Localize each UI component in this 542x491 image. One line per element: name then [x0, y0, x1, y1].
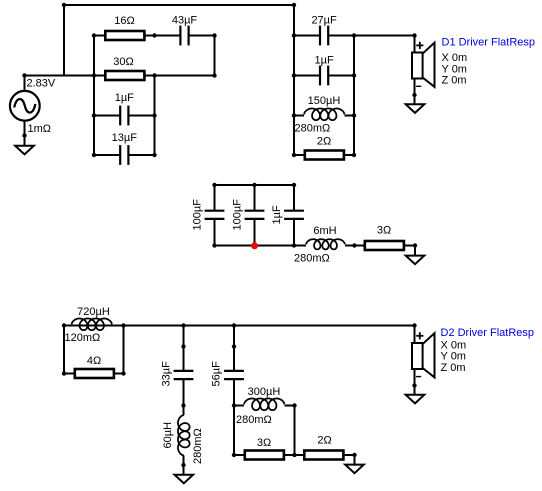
wire mid cap1 v [214, 185, 216, 211]
svg-text:100µF: 100µF [192, 199, 204, 231]
node top bus corner [62, 3, 66, 7]
svg-text:Y 0m: Y 0m [441, 351, 466, 363]
wire 27uF left [294, 35, 320, 37]
wire 300uH drop [294, 406, 296, 456]
capacitor C 100uF a [205, 210, 225, 212]
wire 2ohm bot rh [344, 454, 355, 456]
wire top bus vertical [63, 4, 65, 76]
wire top bus horizontal [63, 4, 295, 6]
speaker D1 [412, 43, 435, 87]
svg-text:1µF: 1µF [315, 55, 334, 67]
wire 2ohm bot lh [295, 454, 304, 456]
wire 2ohm gnd lead [354, 455, 356, 466]
capacitor C 1uF left block [119, 106, 121, 126]
node bot bus c [181, 323, 185, 327]
svg-text:D1 Driver FlatResp: D1 Driver FlatResp [442, 36, 536, 48]
wire 3ohm mid right [405, 245, 416, 247]
inductor L 60uH [178, 415, 190, 456]
wire D2 minus lead [414, 369, 416, 395]
svg-text:X 0m: X 0m [441, 339, 467, 351]
wire 1uF right [129, 115, 155, 117]
svg-text:27µF: 27µF [311, 15, 337, 27]
node mid top b [252, 183, 256, 187]
wire 4ohm right h [115, 373, 124, 375]
svg-text:720µH: 720µH [77, 306, 110, 318]
wire D2 plus lead [414, 326, 416, 344]
svg-text:100µF: 100µF [232, 199, 244, 231]
wire 56uF top v [233, 326, 235, 371]
wire D1 plus lead [414, 36, 416, 53]
capacitor C 100uF b [245, 210, 265, 212]
svg-text:16Ω: 16Ω [114, 15, 134, 27]
wire D1 minus lead [414, 79, 416, 105]
wire 4ohm left h [64, 373, 74, 375]
wire bottom bus [64, 325, 415, 327]
node 33uF top [181, 344, 185, 348]
wire mid top bus [215, 184, 295, 186]
node 6mH out [352, 243, 356, 247]
node left rail r1 [92, 33, 96, 37]
node 2ohm bot right [352, 453, 356, 457]
wire 56uF bottom v [233, 379, 235, 455]
wire 150uH left [294, 115, 304, 117]
speaker D2 [412, 333, 435, 377]
svg-text:56µF: 56µF [211, 361, 223, 387]
node mid rail r3 [152, 113, 156, 117]
node right rail r4 [352, 153, 356, 157]
svg-text:2Ω: 2Ω [317, 135, 331, 147]
node right rail r3 [352, 113, 356, 117]
svg-text:13µF: 13µF [112, 132, 138, 144]
svg-text:D2 Driver FlatResp: D2 Driver FlatResp [441, 327, 535, 339]
wire mid cap2 v [254, 185, 256, 211]
D1 plus sign [416, 42, 423, 49]
wire 3ohm bot rh [285, 454, 295, 456]
inductor L 720uH [72, 319, 113, 331]
node 300uH in [232, 403, 236, 407]
wire 27uF right [329, 35, 355, 37]
wire right bus down [293, 4, 295, 156]
ground G5 2ohm [345, 465, 364, 474]
node D2 bottom [412, 383, 416, 387]
svg-text:300µH: 300µH [248, 386, 281, 398]
wire 2ohm left [294, 154, 304, 156]
node 16ohm-43uF [152, 33, 156, 37]
node 60uH top [181, 403, 185, 407]
capacitor C 56uF [224, 370, 244, 372]
node 4ohm left [62, 371, 66, 375]
node mid top a [212, 183, 216, 187]
node right rail r2 [352, 73, 356, 77]
wire 6mH right [345, 245, 364, 247]
capacitor C 1uF mid [284, 210, 304, 212]
wire 30ohm left [94, 75, 104, 77]
wire mid gnd lead [414, 246, 416, 257]
capacitor C 43uF [179, 26, 181, 46]
wire mid cap3 v [293, 185, 295, 211]
node bot bus d [232, 323, 236, 327]
svg-text:3Ω: 3Ω [377, 225, 391, 237]
svg-text:150µH: 150µH [308, 95, 341, 107]
svg-text:120mΩ: 120mΩ [65, 332, 101, 344]
wire 3ohm bot lh [234, 454, 244, 456]
node 4ohm right [121, 371, 125, 375]
D1 minus sign [416, 85, 421, 87]
node 60uH bottom [181, 463, 185, 467]
node D1 top [412, 33, 416, 37]
node lrail r1 [292, 33, 296, 37]
wire 43uF right [189, 35, 215, 37]
wire 33uF top v [183, 326, 185, 371]
node 3ohm bot left [232, 453, 236, 457]
svg-text:2.83V: 2.83V [27, 77, 56, 89]
node 43uF bottom corner [212, 73, 216, 77]
svg-text:33µF: 33µF [161, 361, 173, 387]
wire to D1 [354, 35, 415, 37]
node source top [22, 73, 26, 77]
wire 1uF2 left [294, 75, 320, 77]
svg-text:30Ω: 30Ω [113, 56, 133, 68]
voltage source V1 2.83V [10, 76, 40, 147]
node 30ohm right [152, 73, 156, 77]
wire 43uF drop [214, 36, 216, 76]
node bot bus a [62, 323, 66, 327]
inductor L 150uH [304, 109, 345, 121]
svg-text:2Ω: 2Ω [317, 434, 331, 446]
D2 minus sign [416, 376, 421, 378]
svg-text:X 0m: X 0m [442, 52, 468, 64]
node mid top c [292, 183, 296, 187]
node mid rail r4 [152, 153, 156, 157]
wire mid bottom bus [215, 245, 307, 247]
wire 16ohm left [94, 35, 104, 37]
capacitor C 33uF [174, 370, 194, 372]
wire 150uH right [345, 115, 355, 117]
wire 33uF bottom v [183, 379, 185, 415]
D2 plus sign [416, 332, 423, 339]
ground G2 D1 [406, 104, 425, 113]
wire 13uF left [94, 154, 120, 156]
node D1 bottom [412, 93, 416, 97]
capacitor C 1uF right block [319, 66, 321, 86]
node 56uF top [232, 344, 236, 348]
node lrail r4 [292, 153, 296, 157]
node left rail r4 [92, 153, 96, 157]
node left rail r3 [92, 113, 96, 117]
wire right rail top [353, 36, 355, 157]
node mid bottom c [292, 243, 296, 247]
node 3ohm bot right [292, 453, 296, 457]
resistor R 3ohm mid [365, 241, 404, 250]
wire source row [25, 75, 95, 77]
svg-text:Y 0m: Y 0m [442, 63, 467, 75]
wire 300uH right [285, 405, 295, 407]
wire 1uF2 right [329, 75, 355, 77]
node mid bottom red [251, 242, 258, 249]
node 300uH out [292, 403, 296, 407]
wire 13uF right [129, 154, 155, 156]
wire 2ohm right [345, 154, 355, 156]
svg-text:280mΩ: 280mΩ [192, 428, 204, 464]
svg-text:1µF: 1µF [271, 205, 283, 224]
wire 60uH bottom [183, 456, 185, 476]
svg-text:280mΩ: 280mΩ [295, 122, 331, 134]
node left rail r2 [92, 73, 96, 77]
wire mid rail [154, 76, 156, 157]
wire 30ohm right [145, 75, 215, 77]
resistor R 4ohm [75, 369, 114, 378]
node 3ohm mid out [413, 243, 417, 247]
svg-text:6mH: 6mH [313, 225, 336, 237]
svg-text:Z 0m: Z 0m [442, 75, 467, 87]
svg-text:60µH: 60µH [162, 422, 174, 449]
inductor L 6mH [306, 239, 345, 249]
resistor R 16ohm [105, 31, 144, 40]
svg-text:Z 0m: Z 0m [441, 362, 466, 374]
node top bus corner right [292, 3, 296, 7]
resistor R 30ohm [105, 71, 144, 80]
node mid bottom a [212, 243, 216, 247]
ground G3 mid [406, 256, 425, 265]
node source bottom [22, 133, 26, 137]
ground G1 [15, 146, 34, 155]
wire 4ohm left v [63, 326, 65, 374]
capacitor C 27uF [319, 26, 321, 46]
wire 1uF left [94, 115, 120, 117]
svg-text:280mΩ: 280mΩ [294, 253, 330, 265]
wire 300uH left [234, 405, 244, 407]
svg-text:1µF: 1µF [115, 92, 134, 104]
ground G4 60uH [175, 475, 194, 484]
svg-text:280mΩ: 280mΩ [236, 414, 272, 426]
resistor R 2ohm bottom [304, 451, 343, 460]
node lrail r2 [292, 73, 296, 77]
node right rail r1 [352, 33, 356, 37]
wire left rail [93, 36, 95, 157]
node 43uF corner [212, 33, 216, 37]
resistor R 2ohm top [305, 151, 344, 160]
resistor R 3ohm bottom [245, 451, 284, 460]
node bot bus b [121, 323, 125, 327]
wire 16ohm right [145, 35, 155, 37]
ground G6 D2 [406, 395, 425, 404]
node D2 top [412, 323, 416, 327]
wire 4ohm right v [123, 326, 125, 374]
svg-text:43µF: 43µF [172, 15, 198, 27]
svg-text:1mΩ: 1mΩ [28, 123, 52, 135]
wire 43uF left [155, 35, 181, 37]
node lrail r3 [292, 113, 296, 117]
svg-text:4Ω: 4Ω [87, 355, 101, 367]
capacitor C 13uF [119, 145, 121, 165]
inductor L 300uH [244, 399, 285, 411]
svg-text:3Ω: 3Ω [257, 437, 271, 449]
